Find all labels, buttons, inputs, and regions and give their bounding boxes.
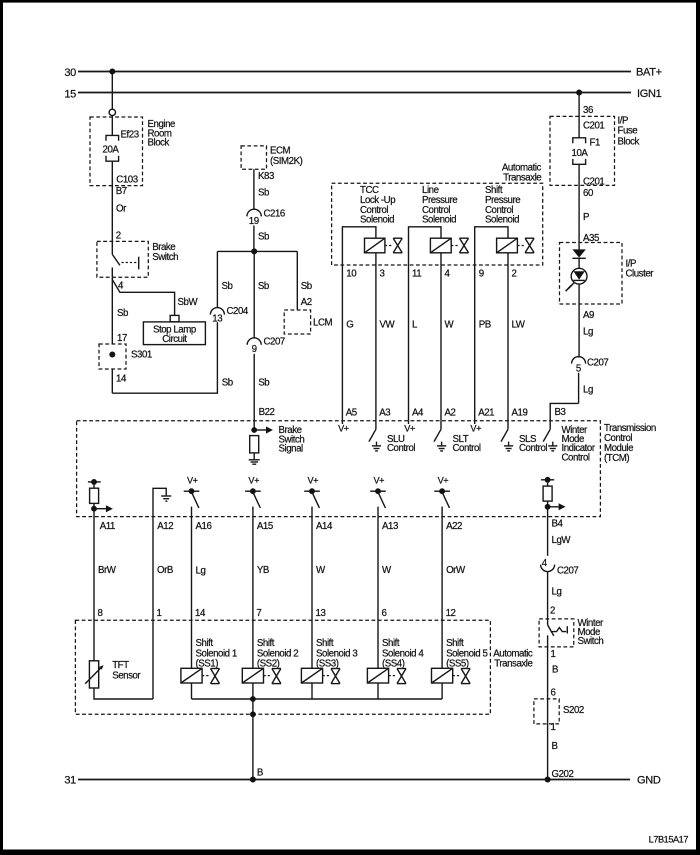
wire from rail 30 to Engine Room Block [111,72,113,110]
svg-text:Control: Control [453,443,481,454]
SS5 wire to ground bus [441,683,443,699]
shift solenoid 2 valve symbol [264,669,281,684]
svg-text:V+: V+ [374,476,385,486]
junction on rail 30 [109,69,115,75]
wire SbW branch to stop lamp circuit [112,280,198,316]
wire from TCC solenoid pin 3 to TCM [375,253,377,421]
svg-text:(TCM): (TCM) [604,453,629,464]
svg-text:A5: A5 [346,408,357,419]
svg-text:Transaxle: Transaxle [494,659,532,670]
LED winter mode indicator lamp [566,268,587,291]
svg-text:Control: Control [562,452,590,463]
svg-text:12: 12 [446,608,456,619]
svg-text:B: B [552,741,558,752]
line pressure solenoid valve symbol [451,238,468,253]
svg-text:C207: C207 [587,358,608,369]
svg-text:8: 8 [98,608,103,619]
wire from line pressure solenoid pin 4 to TCM [440,253,442,421]
A22 driver switch with V+ [434,476,450,517]
svg-text:S202: S202 [563,705,584,716]
shift solenoid 5 coil [432,668,453,683]
wire bus at ECM branch [217,250,297,252]
svg-text:C201: C201 [583,177,604,188]
svg-text:Or: Or [116,204,127,215]
svg-text:6: 6 [551,688,556,699]
wire Sb from junction down to TCM B22 [254,251,269,338]
connector C216 pin 19 [247,209,285,227]
svg-text:BAT+: BAT+ [636,67,662,79]
svg-text:Ef23: Ef23 [121,130,139,141]
svg-text:W: W [316,565,326,576]
Shift Solenoid 4 (SS4) label [382,638,424,669]
SS2 wire to ground bus [252,683,254,699]
A16 driver switch with V+ [184,476,200,517]
winter mode switch contacts [548,619,568,647]
svg-text:K83: K83 [258,171,274,182]
svg-text:Transaxle: Transaxle [503,172,541,183]
svg-text:B: B [552,665,558,676]
svg-text:BrW: BrW [98,565,117,576]
svg-text:PB: PB [479,320,491,331]
wire B pin 1 from winter mode switch to S202 [548,647,558,780]
svg-text:TFT: TFT [112,660,129,671]
svg-text:A12: A12 [157,521,173,532]
wire Sb from C216 to junction [254,226,269,252]
splice S202 (dashed box) [534,699,584,724]
svg-text:P: P [583,212,589,223]
svg-text:Switch: Switch [578,636,604,647]
svg-text:S301: S301 [131,350,152,361]
winter mode indicator control switch [543,421,596,464]
V+ stub at A4 [404,421,415,434]
svg-text:Switch: Switch [152,252,178,263]
Engine Room Block (dashed box) [90,117,175,186]
shift solenoid 4 coil [367,668,388,683]
svg-text:Sb: Sb [258,188,269,199]
svg-text:F1: F1 [590,138,600,149]
svg-text:1: 1 [157,608,162,619]
svg-text:Sb: Sb [301,281,312,292]
junction rail 31 at G202 [545,777,551,783]
svg-text:A14: A14 [316,521,333,532]
SLT control switch [434,421,481,454]
svg-text:LW: LW [512,320,526,331]
brake switch signal arrow [254,425,304,455]
Winter Mode Switch (dashed box) [539,618,604,647]
svg-text:A9: A9 [583,310,594,321]
wire BrW from A11 to TFT sensor [94,509,117,661]
svg-text:C201: C201 [583,121,604,132]
diode in I/P cluster [572,249,585,268]
svg-text:B3: B3 [555,407,566,418]
svg-text:Lg: Lg [552,586,562,597]
svg-text:1: 1 [551,649,556,660]
svg-text:Control: Control [387,443,415,454]
wire W from A14 to SS3 [312,517,326,669]
net BAT+ rail 30 [64,67,661,80]
SLU control switch [369,421,415,454]
junction at B22 input [251,427,257,433]
svg-text:Block: Block [618,136,640,147]
svg-text:Solenoid: Solenoid [422,214,456,225]
I/P Fuse Block (dashed box) [550,115,640,185]
svg-text:14: 14 [195,608,206,619]
svg-text:Sb: Sb [117,308,128,319]
splice S301 (dashed box) [99,344,152,369]
A13 driver switch with V+ [370,476,386,517]
line pressure solenoid coil [409,227,452,421]
A14 driver switch with V+ [304,476,320,517]
connector block on stop lamp circuit [170,315,179,321]
A11 signal arrow [94,505,113,512]
TCC solenoid coil [342,227,385,421]
svg-text:A21: A21 [478,408,494,419]
svg-text:C216: C216 [264,209,285,220]
svg-text:Circuit: Circuit [162,334,187,345]
net GND rail 31 [64,775,661,787]
shift solenoid 5 valve symbol [453,669,470,684]
svg-text:A3: A3 [379,408,390,419]
svg-text:Sb: Sb [258,231,269,242]
B4 pull-up resistor [541,477,554,510]
svg-text:V+: V+ [308,476,319,486]
wire P from fuse F1 to I/P cluster [579,164,604,249]
svg-text:9: 9 [479,268,484,279]
svg-text:A16: A16 [196,521,212,532]
svg-text:10: 10 [346,268,357,279]
svg-text:Sb: Sb [222,377,233,388]
svg-text:6: 6 [382,608,387,619]
svg-text:Solenoid: Solenoid [485,214,519,225]
wire Sb pin 14 from S301 to C204 [112,322,233,393]
wire OrW from A22 to SS5 [442,517,466,669]
svg-text:A13: A13 [382,521,398,532]
wire LgW from B4 to C207 [548,507,572,556]
Shift Solenoid 3 (SS3) label [316,638,357,669]
junction rail 31 at B [250,777,256,783]
svg-text:V+: V+ [187,476,198,486]
wire W from A13 to SS4 [378,517,392,669]
svg-text:V+: V+ [338,424,349,434]
svg-text:V+: V+ [470,424,481,434]
svg-text:YB: YB [257,565,269,576]
shift solenoid 1 valve symbol [202,669,219,684]
A15 driver switch with V+ [245,476,261,517]
wire Sb K83 from ECM to C216 [254,169,274,209]
shift pressure solenoid valve symbol [517,238,534,253]
svg-text:VW: VW [380,320,396,331]
wire OrB from A12 [153,517,173,699]
wire YB from A15 to SS2 [253,517,269,669]
svg-text:Lg: Lg [583,385,593,396]
svg-text:Lg: Lg [583,327,593,338]
solenoid ground bus [192,698,443,700]
Shift Solenoid 1 (SS1) label [196,638,237,669]
svg-text:C204: C204 [227,306,249,317]
wire into fuse Ef23 [111,116,113,136]
wire Lg from A16 to SS1 [192,517,206,669]
svg-text:19: 19 [249,216,259,227]
ECM (SIM2K) dashed box [241,146,302,170]
svg-text:OrW: OrW [446,565,466,576]
B4 signal arrow [548,503,566,510]
svg-text:A22: A22 [446,521,462,532]
svg-text:3: 3 [380,268,385,279]
svg-text:1: 1 [551,722,556,733]
V+ stub at A5 [338,421,349,434]
stop lamp circuit box [143,322,205,345]
connector C207 pin 4 [541,558,579,576]
svg-text:(SIM2K): (SIM2K) [270,156,303,167]
wire Lg from C207 to winter mode switch [548,572,562,619]
svg-text:2: 2 [116,231,121,242]
connector C204 pin 13 [210,306,249,325]
fuse F1 10A [572,138,600,165]
svg-text:A15: A15 [257,521,273,532]
svg-text:B: B [257,768,263,779]
svg-text:2: 2 [512,268,517,279]
svg-text:2: 2 [550,605,555,616]
SS4 wire to ground bus [377,683,379,699]
svg-text:Sb: Sb [222,281,233,292]
shift solenoid 3 coil [301,668,322,683]
svg-text:20A: 20A [103,145,120,156]
shift solenoid 3 valve symbol [323,669,340,684]
svg-text:7: 7 [256,608,261,619]
svg-text:OrB: OrB [157,565,173,576]
wire Lg B3 into TCM [550,373,593,421]
svg-text:LgW: LgW [552,535,572,546]
svg-text:C207: C207 [557,565,578,576]
svg-text:GND: GND [637,775,661,787]
SS3 wire to ground bus [311,683,313,699]
brake switch (dashed box) [97,241,178,277]
wire B from bus to rail 31 [250,699,263,780]
svg-text:Block: Block [148,138,170,149]
svg-text:9: 9 [252,344,257,355]
Automatic Transaxle lower (dashed box) [75,620,533,714]
Automatic Transaxle upper (dashed box) [332,163,543,265]
svg-text:V+: V+ [438,476,449,486]
svg-text:15: 15 [64,88,76,100]
connector C207 pin 9 [247,337,285,356]
svg-text:ECM: ECM [270,146,291,157]
svg-text:W: W [382,565,392,576]
SLS control switch [501,421,547,454]
svg-text:C207: C207 [264,337,285,348]
LCM dashed box [284,310,332,334]
svg-text:W: W [445,320,455,331]
net IGN1 rail 15 [64,88,661,101]
Line Pressure Control Solenoid label [422,185,457,225]
shift solenoid 4 valve symbol [389,669,406,684]
svg-text:IGN1: IGN1 [637,88,662,100]
svg-text:V+: V+ [248,476,259,486]
brake switch contacts [112,241,138,277]
svg-text:A19: A19 [512,408,528,419]
connector cavity circle at Engine Room Block [109,109,115,115]
svg-text:Solenoid: Solenoid [360,214,394,225]
svg-text:5: 5 [576,363,581,374]
svg-text:Sb: Sb [258,377,269,388]
svg-text:L7B15A17: L7B15A17 [649,835,689,845]
svg-text:C103: C103 [116,174,137,185]
fuse Ef23 20A [103,130,139,162]
svg-text:Sb: Sb [258,281,269,292]
wire Sb from C204 to junction [217,251,232,307]
svg-text:B4: B4 [552,519,564,530]
TCC Lock-Up Control Solenoid label [360,185,395,225]
connector C207 pin 5 [572,357,609,375]
resistor on B22 input [250,436,259,460]
svg-text:B22: B22 [259,407,275,418]
svg-text:11: 11 [412,268,421,279]
shift solenoid 2 coil [242,668,263,683]
wire Sb B22 into TCM [254,354,274,430]
Shift Solenoid 5 (SS5) label [446,638,487,669]
svg-text:B7: B7 [116,186,127,197]
TFT return wire to A12 [94,688,153,699]
SS1 wire to ground bus [191,683,193,699]
svg-text:30: 30 [64,67,76,79]
svg-text:60: 60 [583,188,594,199]
svg-text:LCM: LCM [313,317,332,328]
shift pressure solenoid coil [475,227,518,421]
svg-text:G202: G202 [552,769,574,780]
V+ stub at A21 [470,421,481,434]
Shift Solenoid 2 (SS2) label [257,638,298,669]
shift solenoid 1 coil [181,668,202,683]
wire Or from fuse to brake switch [112,161,137,241]
svg-text:13: 13 [316,608,326,619]
junction on ground bus [250,696,256,702]
svg-text:Sensor: Sensor [112,671,141,682]
svg-text:Fuse: Fuse [618,126,638,137]
svg-text:A2: A2 [445,408,456,419]
svg-text:17: 17 [117,333,127,344]
svg-text:A2: A2 [301,297,312,308]
svg-text:Control: Control [519,443,547,454]
svg-text:SbW: SbW [178,297,199,308]
I/P Cluster (dashed box) [560,243,655,305]
wire Sb from brake switch to S301 [112,277,128,344]
svg-text:31: 31 [64,775,76,787]
Shift Pressure Control Solenoid label [485,185,520,225]
ground symbol B22 pulldown [249,460,260,464]
svg-text:V+: V+ [404,424,415,434]
A12 internal ground [153,488,171,516]
TCC solenoid valve symbol [385,238,402,253]
Transmission Control Module TCM (dashed box) [77,421,656,517]
wire from rail 15 to I/P fuse block [579,93,593,138]
TFT sense resistor at A11 [88,479,101,512]
svg-text:Lg: Lg [196,566,206,577]
wire Lg from cluster to C207 [579,284,594,358]
svg-text:Cluster: Cluster [626,268,655,279]
wire from shift pressure solenoid pin 2 to TCM [507,253,509,421]
TFT sensor thermistor [85,660,141,688]
svg-text:10A: 10A [572,148,589,159]
junction at ECM branch [251,248,257,254]
svg-text:13: 13 [212,314,222,325]
svg-text:G: G [346,320,353,331]
svg-text:A4: A4 [412,408,424,419]
svg-text:Signal: Signal [279,444,304,455]
svg-text:A11: A11 [100,521,115,532]
junction on rail 15 [576,90,582,96]
svg-text:14: 14 [116,374,127,385]
wire Sb branch to LCM [297,251,312,309]
svg-text:36: 36 [583,105,593,116]
